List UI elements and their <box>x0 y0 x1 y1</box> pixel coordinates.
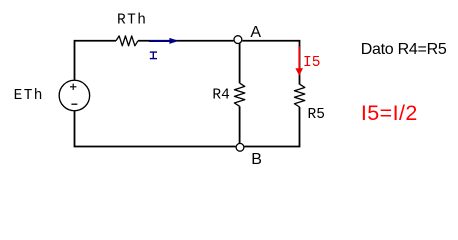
svg-text:A: A <box>250 24 261 41</box>
node A <box>234 36 242 44</box>
svg-text:B: B <box>251 151 262 168</box>
svg-text:R4: R4 <box>212 88 229 104</box>
wire: node A to top-right corner, down to R5 branch <box>242 41 299 85</box>
svg-text:I5=I/2: I5=I/2 <box>361 101 418 125</box>
wire: left rail from source ETh up and top rail to resistor RTh <box>75 41 117 81</box>
svg-text:ETh: ETh <box>14 88 44 104</box>
resistor R4 <box>234 83 244 106</box>
wire: node B to bottom-left corner up to source ETh <box>75 111 236 147</box>
resistor RTh <box>116 36 138 46</box>
svg-text:R5: R5 <box>308 107 325 123</box>
current arrow I (blue) <box>149 38 179 44</box>
current arrow I5 (red) <box>295 46 303 75</box>
node B <box>236 143 244 151</box>
voltage source ETh <box>59 80 90 111</box>
wire: RTh to node A <box>138 40 234 42</box>
wire: R4 down to node B <box>239 106 241 143</box>
wire: R5 to bottom-right corner to node B <box>244 107 299 147</box>
svg-text:I5: I5 <box>303 55 320 71</box>
svg-text:Dato R4=R5: Dato R4=R5 <box>361 41 447 58</box>
svg-text:RTh: RTh <box>117 13 147 29</box>
resistor R5 <box>294 84 304 107</box>
label I (blue) <box>150 52 157 59</box>
wire: node A down to resistor R4 <box>239 43 241 83</box>
